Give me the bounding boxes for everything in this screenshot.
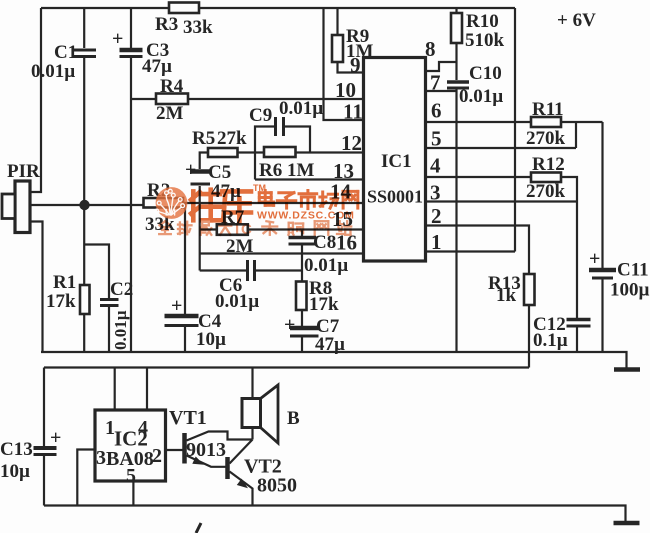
watermark logo circle — [156, 187, 188, 219]
wire C12 bottom stub — [576, 327, 578, 352]
svg-text:C10: C10 — [469, 63, 502, 84]
PIR sensor — [15, 181, 30, 233]
svg-text:5: 5 — [126, 465, 136, 487]
capacitor C7 — [290, 326, 319, 331]
stray mark — [196, 523, 201, 533]
wire R4 to pin 10 — [131, 98, 364, 100]
resistor R5 — [208, 148, 238, 157]
wire C1 top stub — [83, 8, 85, 48]
svg-text:SS0001: SS0001 — [367, 187, 423, 207]
svg-text:27k: 27k — [217, 128, 247, 149]
wire C4 top stub — [184, 203, 186, 314]
svg-text:+: + — [50, 427, 61, 449]
svg-text:10µ: 10µ — [196, 329, 226, 350]
svg-text:0.01µ: 0.01µ — [459, 86, 503, 107]
resistor R10 — [451, 13, 462, 43]
wire pin 7 to C10 — [426, 90, 457, 92]
wire lower ground rail — [44, 506, 626, 522]
resistor R9 — [332, 35, 343, 62]
svg-text:8: 8 — [425, 37, 436, 61]
wire lower box top rail — [44, 366, 529, 368]
wire PIR ground drop — [30, 222, 43, 353]
svg-text:100µ: 100µ — [610, 280, 650, 301]
svg-text:0.01µ: 0.01µ — [279, 98, 323, 119]
wire R12 right down to C12 — [576, 177, 577, 318]
svg-text:R1: R1 — [53, 272, 76, 293]
wire pin 4 through R12 — [426, 176, 577, 178]
resistor R8 — [296, 282, 307, 311]
svg-text:R11: R11 — [532, 99, 564, 120]
capacitor C3 — [120, 48, 143, 53]
wire speaker bottom — [251, 428, 253, 440]
wire C2 top branch — [84, 245, 109, 299]
capacitor C5 — [191, 169, 211, 174]
transistor VT1 emitter arrow — [192, 457, 204, 465]
transistor VT2 base bar — [225, 457, 230, 479]
svg-text:0.01µ: 0.01µ — [111, 310, 130, 350]
svg-text:7: 7 — [430, 71, 441, 95]
wire to pin 13 — [255, 178, 364, 180]
wire rail drop to pin 11 — [324, 8, 364, 120]
svg-text:33k: 33k — [183, 17, 213, 38]
wire +6V top rail — [41, 7, 515, 9]
resistor R1 — [80, 285, 90, 314]
watermark characters 电子市场网 — [259, 191, 273, 206]
transistor VT2 emitter arrow — [237, 479, 248, 489]
wire R9 branch to pin 9 — [338, 8, 364, 73]
speaker B horn — [261, 385, 279, 443]
resistor R3 — [169, 3, 199, 14]
svg-text:2: 2 — [431, 204, 442, 228]
svg-text:+: + — [171, 295, 182, 317]
wire IC2 pin4 stub — [146, 368, 148, 411]
svg-text:IC1: IC1 — [381, 151, 412, 172]
svg-text:47µ: 47µ — [142, 56, 172, 77]
svg-text:0.01µ: 0.01µ — [31, 61, 75, 82]
wire pin 5 — [426, 147, 577, 149]
wire R11 right to C11 — [601, 122, 603, 268]
wire C11 bottom stub — [601, 280, 603, 352]
svg-text:12: 12 — [341, 131, 362, 155]
capacitor C6 — [246, 260, 249, 281]
svg-text:R4: R4 — [160, 76, 184, 97]
svg-text:IC2: IC2 — [114, 427, 148, 451]
wire pin 1 — [426, 250, 516, 252]
watermark characters 全球最大IC采购网站 — [159, 221, 171, 234]
wire +6V drop to pin 1 — [514, 8, 516, 252]
transistor VT1 base bar — [182, 433, 187, 464]
svg-text:C8: C8 — [313, 232, 336, 253]
wire C6 left — [200, 269, 246, 271]
svg-text:+: + — [589, 248, 600, 270]
svg-text:11: 11 — [343, 100, 363, 124]
wire C3 top stub — [130, 8, 132, 48]
capacitor C2 — [100, 298, 119, 301]
junction node dot — [79, 200, 89, 210]
svg-text:R6 1M: R6 1M — [259, 160, 314, 181]
svg-text:B: B — [287, 408, 300, 429]
wire upper-circuit ground rail — [41, 352, 627, 368]
wire C4 bottom stub — [184, 327, 186, 352]
resistor R6 — [264, 147, 296, 157]
watermark big characters 维库 — [191, 190, 220, 221]
wire C9 left branch — [255, 127, 274, 153]
resistor R7 — [217, 224, 248, 235]
capacitor C13 — [34, 446, 57, 450]
capacitor C9 — [274, 117, 277, 136]
svg-text:17k: 17k — [309, 294, 339, 315]
svg-text:C9: C9 — [249, 105, 272, 126]
capacitor C4 — [165, 314, 199, 319]
resistor R12 — [531, 173, 561, 183]
wire C8-R8-C7 vertical — [301, 245, 303, 326]
wire R7 line to pin 15 — [200, 228, 364, 230]
svg-text:R5: R5 — [192, 128, 215, 149]
svg-text:2: 2 — [152, 445, 162, 467]
svg-text:C5: C5 — [208, 162, 231, 183]
wire R10 vertical — [455, 8, 457, 80]
svg-text:1: 1 — [431, 230, 442, 254]
svg-text:R12: R12 — [532, 154, 565, 175]
svg-text:PIR: PIR — [7, 161, 40, 182]
wire C13 bottom stub — [43, 456, 45, 506]
wire C3/R4 ground line — [130, 57, 132, 352]
svg-text:WWW.DZSC.COM: WWW.DZSC.COM — [257, 210, 355, 222]
svg-text:3: 3 — [96, 447, 106, 469]
wire C5 bottom vertical (to R7/C6) — [199, 186, 201, 271]
op-amp/IC U1 SS0001 body — [364, 58, 426, 262]
wire R11 to pin5 tie — [575, 122, 577, 148]
wire IC2 pin3 to ground — [77, 450, 95, 506]
svg-text:17k: 17k — [46, 291, 76, 312]
ground symbol (upper right) — [614, 367, 640, 372]
resistor R13 — [524, 274, 535, 305]
IC U2 BA08 body — [95, 410, 166, 481]
capacitor C11 — [589, 268, 616, 273]
wire pin 2 to R13 — [426, 226, 530, 368]
svg-text:C2: C2 — [110, 279, 133, 300]
svg-text:8050: 8050 — [257, 475, 297, 497]
ground symbol (lower right) — [614, 521, 640, 526]
svg-text:9013: 9013 — [186, 439, 226, 461]
wire pin13 tie vertical — [254, 153, 256, 180]
wire IC2 pin1 stub — [114, 368, 116, 411]
svg-text:C: C — [241, 221, 252, 238]
wire R5-R6 line to pin 12 — [200, 153, 364, 170]
wire C8 top stub — [301, 230, 303, 237]
svg-text:0.01µ: 0.01µ — [304, 255, 348, 276]
wire to pin 16 — [200, 252, 364, 254]
watermark logo circuit tree — [159, 195, 182, 216]
wire VT2 emitter to ground rail — [230, 472, 253, 506]
svg-text:10: 10 — [335, 78, 356, 102]
svg-text:C1: C1 — [54, 42, 77, 63]
wire C9 right branch — [285, 127, 310, 153]
wire IC2 pin2 to VT1 base — [166, 449, 183, 451]
svg-text:4: 4 — [430, 154, 441, 178]
resistor R4 — [156, 94, 188, 105]
wire R2 output to pin 14 — [183, 202, 364, 204]
svg-text:10µ: 10µ — [0, 461, 30, 482]
wire PIR output to R2 — [30, 204, 144, 206]
svg-text:5: 5 — [431, 127, 442, 151]
capacitor C8 — [289, 236, 317, 240]
svg-text:+: + — [185, 159, 196, 181]
wire C6 right — [256, 269, 303, 271]
wire C1 bottom / R1 branch to rail — [83, 57, 85, 352]
wire pin 6 through R11 — [426, 121, 603, 123]
svg-text:2M: 2M — [156, 103, 184, 124]
svg-text:2M: 2M — [226, 236, 254, 257]
capacitor C12 — [567, 318, 591, 322]
svg-text:270k: 270k — [526, 128, 566, 149]
svg-text:9: 9 — [350, 53, 361, 77]
svg-text:+: + — [284, 314, 295, 336]
wire lower-left vertical to C13 — [43, 368, 45, 447]
wire IC2 pin5 stub — [132, 481, 134, 506]
svg-text:+ 6V: + 6V — [557, 10, 596, 31]
wire pin 3 — [426, 200, 577, 202]
svg-text:C13: C13 — [0, 439, 33, 460]
svg-text:510k: 510k — [465, 30, 505, 51]
svg-text:R3: R3 — [155, 14, 178, 35]
watermark text group — [159, 183, 358, 238]
svg-text:C11: C11 — [617, 260, 649, 281]
svg-text:I: I — [235, 221, 239, 238]
wire VT1 emitter to VT2 base — [187, 456, 226, 467]
resistor R11 — [531, 117, 561, 127]
svg-text:1k: 1k — [496, 285, 517, 306]
wire C2 bottom stub — [108, 307, 110, 353]
svg-text:0.01µ: 0.01µ — [215, 291, 259, 312]
svg-text:270k: 270k — [526, 181, 566, 202]
wire PIR supply drop (left vertical) — [30, 8, 41, 192]
svg-text:VT1: VT1 — [169, 407, 207, 429]
svg-text:6: 6 — [431, 99, 442, 123]
capacitor C10 — [447, 80, 469, 84]
capacitor C1 — [72, 49, 96, 52]
svg-text:47µ: 47µ — [315, 334, 345, 355]
speaker B body — [242, 399, 261, 428]
wire rail to speaker — [251, 368, 253, 399]
svg-text:R10: R10 — [466, 11, 499, 32]
wire pin 8 jog to R10/C10 — [426, 62, 457, 71]
svg-text:0.1µ: 0.1µ — [533, 330, 568, 351]
svg-text:+: + — [112, 28, 123, 50]
wire C10 bottom to ground rail — [455, 89, 457, 352]
wire VT1 collector — [187, 432, 253, 441]
wire VT2 collector — [230, 440, 253, 464]
wire C7 bottom stub — [301, 337, 303, 353]
resistor R2 — [144, 198, 184, 208]
svg-text:3: 3 — [430, 181, 441, 205]
